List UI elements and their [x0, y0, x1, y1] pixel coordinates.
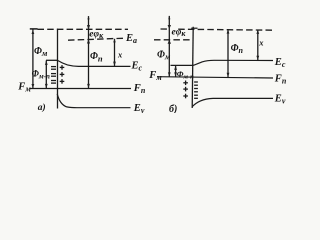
svg-text:б): б): [169, 104, 177, 113]
contact potential / Phi_m dimension line (panel b): [168, 16, 170, 77]
conduction band edge E_c (panel a): bent up at interface: [58, 60, 131, 66]
tick: E_c level at interface extended into metal: [46, 59, 58, 61]
contact potential / Phi_p dimension line (eφк above, Φп below): [88, 16, 90, 88]
svg-text:Fм: Fм: [148, 70, 162, 82]
svg-text:Fп: Fп: [133, 83, 146, 95]
interface (panel b) with top serif: [191, 27, 197, 29]
electron affinity arrow chi (panel b): [257, 30, 259, 61]
svg-text:eφк: eφк: [89, 30, 104, 41]
metal-semiconductor interface (panel a): [57, 29, 59, 109]
top bar of Phi_m dimension: [30, 28, 38, 30]
valence band edge E_v (panel a): bent up at interface: [57, 94, 130, 108]
Fermi level line F_m -- F_p (panel a): [30, 88, 131, 90]
svg-text:Φп: Φп: [90, 51, 103, 63]
Fermi level line F_m -- F_p (panel b): [157, 77, 273, 78]
svg-text:Ev: Ev: [274, 93, 286, 105]
svg-text:Fп: Fп: [274, 73, 287, 85]
svg-text:Eа: Eа: [125, 33, 137, 45]
svg-text:Φп: Φп: [231, 43, 244, 55]
conduction band edge E_c (panel b): bent down at interface: [193, 60, 273, 65]
svg-text:Fм: Fм: [17, 82, 31, 94]
barrier arrow Phi_m-p (from tick to Fermi level): [45, 61, 47, 89]
vacuum level of metal (dashed): [38, 28, 129, 30]
electron affinity arrow chi (panel a): [114, 39, 116, 66]
svg-text:Φм-п: Φм-п: [177, 69, 194, 81]
svg-text:Ev: Ev: [133, 103, 145, 113]
svg-text:Eс: Eс: [274, 57, 286, 69]
vacuum level of semiconductor (dashed), label E_a: [68, 38, 125, 40]
tick: E_c level at interface extended into metal (panel b): [171, 64, 193, 66]
positive surface charge (metal side, panel b): four plus signs: [183, 81, 188, 99]
vacuum level of semiconductor (dashed, upper): [161, 28, 167, 30]
positive space charge (semiconductor side): three plus signs: [60, 65, 65, 84]
negative charge (semiconductor side, panel b): six minus signs: [194, 82, 198, 98]
work function arrow Phi_m (metal), from vacuum level to F_m: [32, 30, 34, 89]
svg-text:х: х: [117, 50, 123, 60]
svg-text:eφк: eφк: [172, 26, 187, 38]
semiconductor work function arrow Phi_p (panel b): [227, 29, 229, 77]
svg-text:Φм: Φм: [34, 46, 48, 58]
svg-text:а): а): [38, 102, 46, 113]
svg-text:Eс: Eс: [131, 60, 143, 72]
svg-text:х: х: [258, 38, 264, 48]
vacuum level of metal (dashed, lower): [154, 39, 193, 41]
svg-text:Φм-п: Φм-п: [32, 69, 50, 81]
negative surface charge (metal side): three double-minus signs: [51, 67, 56, 84]
barrier arrow Phi_m-p (panel b): [175, 66, 177, 77]
valence band edge E_v (panel b): bent down at interface: [192, 98, 273, 106]
